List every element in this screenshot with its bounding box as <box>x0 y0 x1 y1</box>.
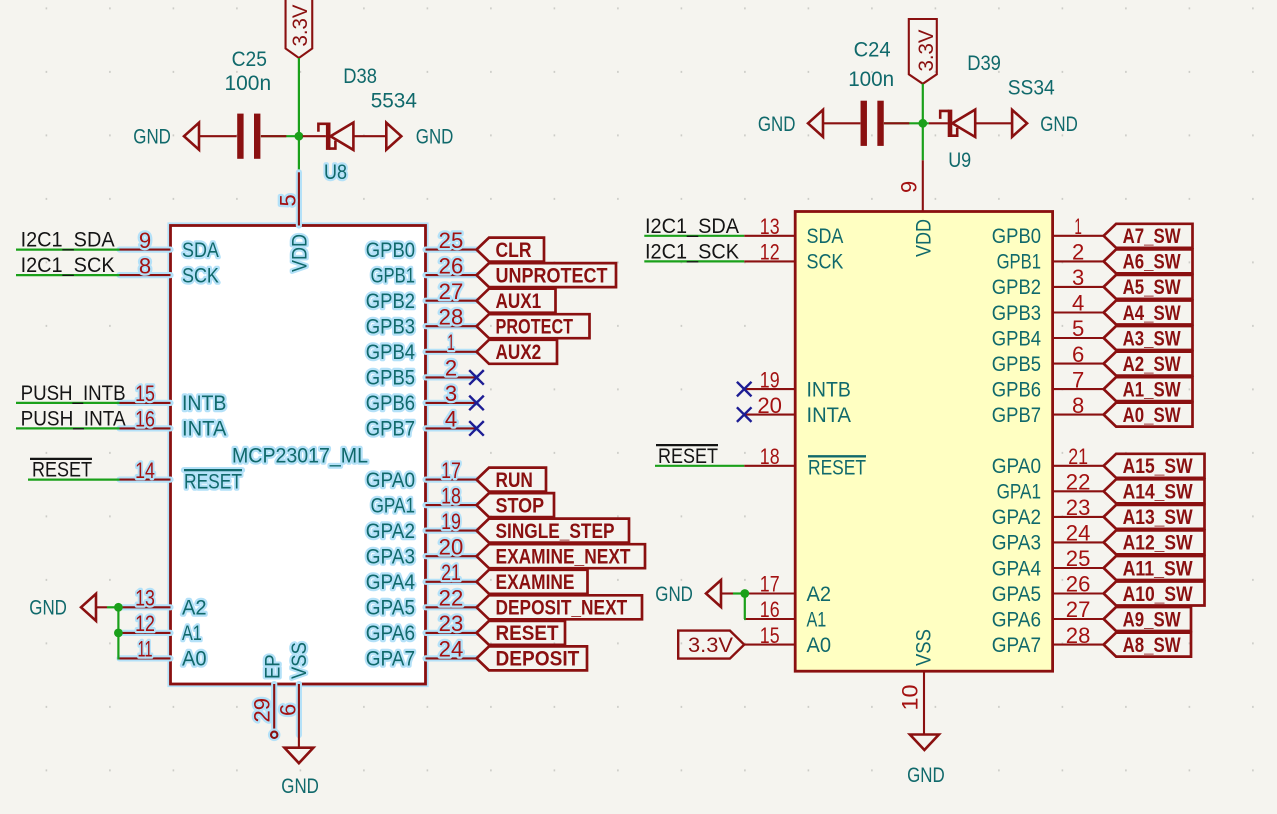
svg-text:GND: GND <box>416 126 454 149</box>
U9 pin 7 GPB6 <box>992 367 1104 401</box>
svg-text:28: 28 <box>439 304 464 329</box>
svg-text:C25: C25 <box>232 48 267 71</box>
svg-text:A10_SW: A10_SW <box>1123 582 1194 606</box>
U9 pin 28 GPA7 <box>992 623 1104 657</box>
U8 pin 25 GPB0 <box>366 228 477 262</box>
svg-text:A12_SW: A12_SW <box>1123 531 1194 555</box>
svg-text:16: 16 <box>135 407 155 432</box>
svg-text:GPA2: GPA2 <box>992 506 1041 529</box>
global label A10_SW <box>1104 582 1205 606</box>
svg-text:1: 1 <box>1074 214 1082 239</box>
svg-text:5: 5 <box>276 194 301 206</box>
svg-text:GND: GND <box>281 775 319 798</box>
svg-text:GPB7: GPB7 <box>366 418 415 441</box>
svg-text:9: 9 <box>139 228 151 253</box>
wire and label I2C1_SDA (left) <box>16 229 120 252</box>
svg-text:GPB0: GPB0 <box>992 225 1041 248</box>
svg-text:6: 6 <box>1072 342 1084 367</box>
svg-text:CLR: CLR <box>496 238 532 262</box>
svg-text:2: 2 <box>445 356 457 381</box>
svg-text:DEPOSIT_NEXT: DEPOSIT_NEXT <box>496 596 628 620</box>
global label A0_SW <box>1104 403 1193 427</box>
D39 reference <box>967 52 1001 75</box>
svg-text:AUX2: AUX2 <box>496 340 542 364</box>
svg-text:24: 24 <box>1066 521 1091 546</box>
svg-text:GPA3: GPA3 <box>366 546 415 569</box>
svg-text:GND: GND <box>758 113 796 136</box>
U8 pin 6 VSS <box>276 642 312 735</box>
svg-text:VDD: VDD <box>289 234 312 272</box>
svg-text:GPA1: GPA1 <box>371 494 415 517</box>
wire and label PUSH_INTA <box>16 407 126 430</box>
svg-text:GPA0: GPA0 <box>366 469 415 492</box>
svg-text:A13_SW: A13_SW <box>1123 505 1194 529</box>
global label AUX1 <box>477 289 556 313</box>
svg-text:24: 24 <box>439 637 464 662</box>
U9 pin 22 GPA1 <box>997 470 1104 504</box>
global label A11_SW <box>1104 556 1205 580</box>
junction at A2 (right) <box>740 589 749 598</box>
U8 pin 15 INTB <box>120 381 227 415</box>
svg-text:21: 21 <box>1068 444 1088 469</box>
svg-text:25: 25 <box>439 228 464 253</box>
svg-text:GND: GND <box>907 764 945 787</box>
GND text (at U9 A2) <box>655 583 693 606</box>
svg-text:A0_SW: A0_SW <box>1123 403 1182 427</box>
global label A4_SW <box>1104 301 1193 325</box>
svg-text:7: 7 <box>1072 367 1084 392</box>
svg-text:2: 2 <box>1072 240 1084 265</box>
U8 pin 12 A1 <box>120 611 202 645</box>
U8 pin 1 GPB4 <box>366 330 477 364</box>
svg-text:GPA6: GPA6 <box>992 608 1041 631</box>
global label A12_SW <box>1104 530 1205 554</box>
svg-text:100n: 100n <box>848 68 894 91</box>
svg-text:GPA6: GPA6 <box>366 622 415 645</box>
svg-text:D38: D38 <box>343 65 377 88</box>
wire A2-A1 (right) <box>743 594 746 620</box>
svg-text:D39: D39 <box>967 52 1001 75</box>
U9 pin 4 GPB3 <box>992 291 1104 325</box>
wire and label I2C1_SDA (right) <box>644 215 744 238</box>
D38 value 5534 <box>371 90 418 113</box>
U8 pin 29 EP (unconnected) <box>250 654 285 738</box>
svg-text:PROTECT: PROTECT <box>496 315 574 339</box>
global label RESET <box>477 621 566 645</box>
U8 pin 17 GPA0 <box>366 458 477 492</box>
U9 pin 10 VSS <box>898 629 936 734</box>
U9 pin 17 A2 <box>744 572 831 606</box>
svg-text:GPA4: GPA4 <box>366 571 415 594</box>
svg-text:14: 14 <box>135 458 155 483</box>
ground symbol GND (at U8 A2) <box>81 594 120 621</box>
svg-text:RESET: RESET <box>658 445 718 468</box>
svg-text:GPB5: GPB5 <box>992 353 1041 376</box>
svg-text:GPB1: GPB1 <box>371 264 415 287</box>
U9 pin 20 INTA <box>744 393 851 427</box>
U8 pin 3 GPB6 <box>366 381 477 415</box>
svg-text:A0: A0 <box>182 648 207 671</box>
svg-text:22: 22 <box>439 586 464 611</box>
global label DEPOSIT <box>477 646 588 670</box>
svg-text:GPB7: GPB7 <box>992 404 1041 427</box>
svg-text:15: 15 <box>760 623 780 648</box>
svg-text:10: 10 <box>898 685 923 711</box>
svg-text:A15_SW: A15_SW <box>1123 454 1194 478</box>
global label A13_SW <box>1104 505 1205 529</box>
svg-text:100n: 100n <box>225 72 272 95</box>
no-connect X at U8 GPB5 <box>469 370 484 385</box>
svg-text:23: 23 <box>1066 495 1091 520</box>
global label A2_SW <box>1104 352 1193 376</box>
svg-text:GPA4: GPA4 <box>992 557 1041 580</box>
svg-text:6: 6 <box>276 704 301 716</box>
wire and label RESET (right, active low) <box>655 445 744 468</box>
svg-text:GND: GND <box>133 126 171 149</box>
svg-text:INTB: INTB <box>182 392 226 415</box>
GND text (left of C24) <box>758 113 796 136</box>
svg-text:27: 27 <box>439 279 464 304</box>
global label A8_SW <box>1104 633 1191 657</box>
U9 pin 5 GPB4 <box>992 316 1104 350</box>
global label STOP <box>477 493 555 517</box>
svg-text:I2C1_SCK: I2C1_SCK <box>21 254 115 277</box>
svg-text:26: 26 <box>439 253 464 278</box>
svg-text:A3_SW: A3_SW <box>1123 326 1182 350</box>
svg-text:GND: GND <box>1040 113 1078 136</box>
U8 pin 14 RESET <box>120 458 243 494</box>
ground symbol GND (left of C24) <box>808 110 860 137</box>
svg-text:28: 28 <box>1066 623 1091 648</box>
junction at A1 (left) <box>114 629 123 638</box>
U9 pin 15 A0 <box>744 623 831 657</box>
svg-text:MCP23017_ML: MCP23017_ML <box>232 445 368 468</box>
svg-text:RESET: RESET <box>496 621 559 645</box>
junction at A2 (left) <box>114 603 123 612</box>
global label CLR <box>477 238 545 262</box>
svg-text:VDD: VDD <box>913 219 936 257</box>
global label PROTECT <box>477 314 590 338</box>
C24 value 100n <box>848 68 894 91</box>
ground symbol GND (below U8) <box>284 735 313 763</box>
svg-text:U8: U8 <box>324 161 347 184</box>
svg-text:GPB2: GPB2 <box>992 276 1041 299</box>
svg-text:20: 20 <box>439 534 464 559</box>
svg-text:RESET: RESET <box>184 471 242 494</box>
svg-text:3: 3 <box>445 381 457 406</box>
svg-text:AUX1: AUX1 <box>496 289 542 313</box>
GND text (at U8 A2) <box>29 597 67 620</box>
global label A6_SW <box>1104 249 1193 273</box>
svg-text:A6_SW: A6_SW <box>1123 250 1182 274</box>
U8 pin 27 GPB2 <box>366 279 477 313</box>
svg-text:11: 11 <box>138 637 153 662</box>
svg-text:A1_SW: A1_SW <box>1123 377 1182 401</box>
global label EXAMINE_NEXT <box>477 544 646 568</box>
GND text (right of D38) <box>416 126 454 149</box>
U9 pin 23 GPA2 <box>992 495 1104 529</box>
svg-text:17: 17 <box>760 572 780 597</box>
svg-text:GND: GND <box>655 583 693 606</box>
svg-text:INTB: INTB <box>807 378 851 401</box>
svg-text:I2C1_SCK: I2C1_SCK <box>645 240 739 263</box>
svg-text:A1: A1 <box>807 608 827 631</box>
diode D38 <box>303 123 387 150</box>
svg-text:SCK: SCK <box>182 264 219 287</box>
ground symbol GND (right of D38) <box>386 123 401 150</box>
U9 pin 18 RESET <box>744 444 866 480</box>
svg-text:GPB4: GPB4 <box>992 327 1041 350</box>
svg-text:VSS: VSS <box>288 642 311 679</box>
U9 pin 3 GPB2 <box>992 265 1104 299</box>
svg-text:UNPROTECT: UNPROTECT <box>496 263 608 287</box>
wire and label I2C1_SCK (left) <box>16 254 120 277</box>
U8 reference <box>324 161 347 184</box>
svg-text:9: 9 <box>897 181 922 193</box>
ground symbol GND (left of C25) <box>184 123 237 150</box>
svg-text:13: 13 <box>135 586 155 611</box>
svg-text:GPA1: GPA1 <box>997 481 1041 504</box>
svg-text:EXAMINE_NEXT: EXAMINE_NEXT <box>496 545 631 569</box>
svg-text:1: 1 <box>447 330 455 355</box>
svg-text:RESET: RESET <box>32 459 92 482</box>
global label UNPROTECT <box>477 263 617 287</box>
global label AUX2 <box>477 340 558 364</box>
capacitor C25 <box>237 114 260 159</box>
svg-text:I2C1_SDA: I2C1_SDA <box>21 229 115 252</box>
U9 pin 27 GPA6 <box>992 597 1104 631</box>
svg-text:A9_SW: A9_SW <box>1123 607 1182 631</box>
global label A9_SW <box>1104 607 1191 631</box>
svg-text:GPA5: GPA5 <box>366 597 415 620</box>
svg-text:25: 25 <box>1066 546 1091 571</box>
svg-text:3: 3 <box>1072 265 1084 290</box>
U8 pin 26 GPB1 <box>371 253 477 287</box>
U9 pin 12 SCK <box>744 240 843 274</box>
svg-text:I2C1_SDA: I2C1_SDA <box>645 215 739 238</box>
svg-text:GPB3: GPB3 <box>366 316 415 339</box>
svg-text:SDA: SDA <box>182 239 219 262</box>
svg-text:GPA0: GPA0 <box>992 455 1041 478</box>
U8 pin 28 GPB3 <box>366 304 477 338</box>
svg-text:A7_SW: A7_SW <box>1123 224 1182 248</box>
svg-text:GPB5: GPB5 <box>366 367 415 390</box>
svg-text:A2_SW: A2_SW <box>1123 352 1182 376</box>
svg-text:A11_SW: A11_SW <box>1123 556 1194 580</box>
svg-text:18: 18 <box>441 483 461 508</box>
svg-text:A0: A0 <box>807 634 832 657</box>
svg-text:4: 4 <box>445 407 457 432</box>
wire C25 to junction <box>261 135 303 137</box>
U8 value MCP23017_ML <box>232 445 368 468</box>
svg-text:INTA: INTA <box>807 404 851 427</box>
svg-text:GPA2: GPA2 <box>366 520 415 543</box>
svg-text:21: 21 <box>441 560 461 585</box>
no-connect X at U9 INTB <box>737 382 752 397</box>
global label A15_SW <box>1104 454 1205 478</box>
global label A7_SW <box>1104 224 1193 248</box>
wire 3.3V to VDD junction (right) <box>922 84 924 161</box>
U8 pin 9 SDA <box>120 228 219 262</box>
U9 pin 1 GPB0 <box>992 214 1104 248</box>
U9 pin 8 GPB7 <box>992 393 1104 427</box>
U8 pin 24 GPA7 <box>366 637 477 671</box>
U9 pin 19 INTB <box>744 367 851 401</box>
svg-text:STOP: STOP <box>496 493 545 517</box>
svg-text:20: 20 <box>757 393 782 418</box>
global label RUN <box>477 468 547 492</box>
junction at VDD net (right) <box>918 119 927 128</box>
U9 pin 16 A1 <box>744 597 826 631</box>
D38 reference <box>343 65 377 88</box>
U8 pin 4 GPB7 <box>366 407 477 441</box>
svg-text:GPA7: GPA7 <box>992 634 1041 657</box>
C25 value 100n <box>225 72 272 95</box>
svg-text:19: 19 <box>441 509 461 534</box>
svg-text:A8_SW: A8_SW <box>1123 633 1182 657</box>
IC U9 body <box>795 212 1052 672</box>
U9 pin 26 GPA5 <box>992 572 1104 606</box>
diode D39 <box>929 110 1013 137</box>
wire 3.3V to VDD junction <box>298 58 300 172</box>
svg-text:17: 17 <box>441 458 461 483</box>
U8 pin 23 GPA6 <box>366 611 477 645</box>
svg-text:3.3V: 3.3V <box>289 5 312 47</box>
svg-text:C24: C24 <box>854 39 891 62</box>
svg-text:PUSH_INTA: PUSH_INTA <box>21 407 126 430</box>
svg-text:GND: GND <box>29 597 67 620</box>
svg-text:INTA: INTA <box>182 418 226 441</box>
global label A1_SW <box>1104 377 1193 401</box>
svg-text:18: 18 <box>760 444 780 469</box>
svg-text:A14_SW: A14_SW <box>1123 480 1194 504</box>
C25 reference <box>232 48 267 71</box>
ground symbol GND (below U9) <box>910 735 939 751</box>
svg-text:4: 4 <box>1072 291 1084 316</box>
svg-text:GPB0: GPB0 <box>366 239 415 262</box>
wire and label I2C1_SCK (right) <box>644 240 744 263</box>
GND text (left of C25) <box>133 126 171 149</box>
power label 3.3V (at U9 A0) <box>678 631 744 659</box>
U9 pin 9 VDD <box>897 160 936 257</box>
svg-text:A4_SW: A4_SW <box>1123 301 1182 325</box>
svg-text:U9: U9 <box>948 149 971 172</box>
svg-text:GPA3: GPA3 <box>992 532 1041 555</box>
U9 pin 25 GPA4 <box>992 546 1104 580</box>
svg-text:8: 8 <box>139 253 151 278</box>
D39 value SS34 <box>1008 77 1055 100</box>
U8 pin 2 GPB5 <box>366 356 477 390</box>
ground symbol GND (right of D39) <box>1012 110 1027 137</box>
U8 pin 5 VDD <box>276 172 312 272</box>
U9 pin 21 GPA0 <box>992 444 1104 478</box>
svg-text:GPB3: GPB3 <box>992 302 1041 325</box>
power symbol 3.3V (left circuit) <box>286 0 313 58</box>
no-connect X at U8 GPB7 <box>469 421 484 436</box>
svg-text:SDA: SDA <box>807 225 844 248</box>
U9 pin 6 GPB5 <box>992 342 1104 376</box>
svg-text:VSS: VSS <box>913 629 936 666</box>
svg-text:GPB6: GPB6 <box>992 378 1041 401</box>
svg-text:16: 16 <box>760 597 780 622</box>
svg-text:GPB4: GPB4 <box>366 341 415 364</box>
svg-text:A2: A2 <box>807 583 832 606</box>
U8 pin 16 INTA <box>120 407 227 441</box>
svg-text:12: 12 <box>135 611 155 636</box>
capacitor C24 <box>861 101 884 146</box>
svg-text:RUN: RUN <box>496 468 533 492</box>
svg-text:DEPOSIT: DEPOSIT <box>496 647 580 671</box>
global label A14_SW <box>1104 479 1205 503</box>
svg-text:5534: 5534 <box>371 90 418 113</box>
no-connect X at U8 GPB6 <box>469 396 484 411</box>
svg-text:A2: A2 <box>182 597 207 620</box>
svg-text:3.3V: 3.3V <box>688 634 733 657</box>
svg-text:GPB2: GPB2 <box>366 290 415 313</box>
GND text (right of D39) <box>1040 113 1078 136</box>
svg-text:8: 8 <box>1072 393 1084 418</box>
svg-text:5: 5 <box>1072 316 1084 341</box>
ground symbol GND (at U9 A2) <box>706 580 744 607</box>
wire C24 to junction (right) <box>884 122 929 124</box>
svg-text:RESET: RESET <box>808 457 866 480</box>
svg-text:15: 15 <box>135 381 155 406</box>
svg-text:26: 26 <box>1066 572 1091 597</box>
GND text (below U8) <box>281 775 319 798</box>
svg-text:A1: A1 <box>182 622 202 645</box>
svg-text:19: 19 <box>760 367 780 392</box>
global label DEPOSIT_NEXT <box>477 595 643 619</box>
svg-text:SINGLE_STEP: SINGLE_STEP <box>496 519 615 543</box>
GND text (below U9) <box>907 764 945 787</box>
svg-text:EP: EP <box>262 654 285 679</box>
C24 reference <box>854 39 891 62</box>
U8 pin 13 A2 <box>120 586 207 620</box>
wire and label RESET (left, active low) <box>28 459 120 482</box>
U8 pin 20 GPA3 <box>366 534 477 568</box>
junction at VDD net (left) <box>295 132 304 141</box>
svg-text:GPB1: GPB1 <box>997 251 1041 274</box>
global label EXAMINE <box>477 570 588 594</box>
svg-text:13: 13 <box>760 214 780 239</box>
svg-text:12: 12 <box>760 240 780 265</box>
global label A3_SW <box>1104 326 1193 350</box>
U8 pin 19 GPA2 <box>366 509 477 543</box>
IC U8 body MCP23017_ML <box>171 226 426 685</box>
svg-text:SCK: SCK <box>807 251 844 274</box>
U9 reference <box>948 149 971 172</box>
svg-text:3.3V: 3.3V <box>915 30 938 72</box>
svg-text:GPA7: GPA7 <box>366 648 415 671</box>
global label SINGLE_STEP <box>477 519 630 543</box>
no-connect X at U9 INTA <box>737 407 752 422</box>
U8 pin 11 A0 <box>120 637 207 671</box>
wire A2-A1-A0 (left) <box>118 607 119 658</box>
svg-text:SS34: SS34 <box>1008 77 1055 100</box>
svg-text:27: 27 <box>1066 597 1091 622</box>
U8 pin 8 SCK <box>120 253 219 287</box>
svg-text:GPB6: GPB6 <box>366 392 415 415</box>
svg-text:PUSH_INTB: PUSH_INTB <box>21 382 126 405</box>
svg-text:29: 29 <box>250 698 275 723</box>
U8 pin 21 GPA4 <box>366 560 477 594</box>
U8 pin 18 GPA1 <box>371 483 477 517</box>
U9 pin 24 GPA3 <box>992 521 1104 555</box>
svg-text:23: 23 <box>439 611 464 636</box>
U8 pin 22 GPA5 <box>366 586 477 620</box>
svg-text:A5_SW: A5_SW <box>1123 275 1182 299</box>
svg-text:22: 22 <box>1066 470 1091 495</box>
